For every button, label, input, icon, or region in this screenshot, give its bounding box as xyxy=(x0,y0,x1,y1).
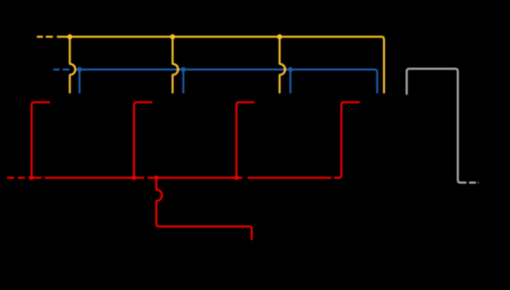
node red junction 1 xyxy=(29,175,33,180)
node orange junction 1 xyxy=(67,34,72,39)
node blue junction 1 xyxy=(77,67,82,72)
wire orange branch drop 1 with hop over blue xyxy=(70,37,76,94)
node orange junction 3 xyxy=(277,34,282,39)
wire gray loop xyxy=(407,69,467,183)
wire red bus segment 2 xyxy=(45,177,145,179)
wire red branch riser 3 xyxy=(236,102,254,178)
wire red bus segment 5 joining branch 4 riser xyxy=(334,102,360,178)
node orange junction 2 xyxy=(170,34,175,39)
wire blue neutral bus xyxy=(76,69,377,93)
node blue junction 3 xyxy=(288,67,293,72)
wire orange phase bus dashed lead-in xyxy=(37,36,53,38)
node red junction 4 xyxy=(234,175,239,180)
wire red bus dashed lead-in xyxy=(7,177,31,179)
wire blue branch drop 2 xyxy=(182,69,184,93)
wire red bus segment 4 xyxy=(248,177,332,179)
wire orange phase bus xyxy=(57,37,384,94)
wire red bus segment 3 xyxy=(148,177,243,179)
node red junction 3 (tail takeoff) xyxy=(154,175,159,180)
wire gray dashed tail xyxy=(469,182,476,184)
node blue junction 2 xyxy=(181,67,186,72)
wire blue neutral bus dashed lead-in xyxy=(53,68,69,70)
wire blue branch drop 3 xyxy=(289,69,291,93)
wire orange branch drop 2 with hop over blue xyxy=(173,37,179,94)
wire blue branch drop 1 xyxy=(79,69,81,93)
wire red tail with hop, down and right xyxy=(156,178,251,240)
wire orange branch drop 3 with hop over blue xyxy=(280,37,286,94)
wire red bus segment 1 xyxy=(32,177,42,179)
node red junction 2 xyxy=(132,175,137,180)
wire gray dashed tail tip xyxy=(478,182,479,184)
wire red branch riser 1 xyxy=(32,102,50,178)
wire red branch riser 2 xyxy=(134,102,153,178)
